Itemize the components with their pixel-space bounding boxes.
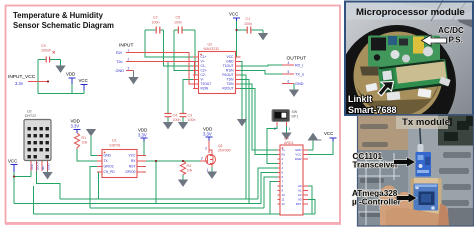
svg-text:C9: C9 xyxy=(41,44,46,48)
svg-text:R2IN: R2IN xyxy=(201,87,209,91)
svg-text:A2: A2 xyxy=(298,193,302,197)
svg-text:T1IN: T1IN xyxy=(226,78,234,82)
svg-text:P.S.: P.S. xyxy=(449,36,463,45)
svg-text:RST: RST xyxy=(129,165,136,169)
svg-text:GND: GND xyxy=(104,154,112,158)
svg-text:3.3v: 3.3v xyxy=(15,81,24,86)
svg-text:C2+: C2+ xyxy=(201,69,207,73)
svg-text:1: 1 xyxy=(289,127,291,131)
svg-text:6: 6 xyxy=(288,80,290,84)
svg-text:T2IN: T2IN xyxy=(226,82,234,86)
svg-text:C1: C1 xyxy=(246,17,251,21)
svg-text:U4: U4 xyxy=(284,137,289,141)
svg-text:VCC: VCC xyxy=(79,78,88,83)
svg-text:VCC: VCC xyxy=(8,159,17,164)
svg-text:2N7000: 2N7000 xyxy=(218,149,231,153)
svg-text:Rx: Rx xyxy=(282,153,286,157)
svg-text:TX_o: TX_o xyxy=(295,73,304,77)
svg-text:10: 10 xyxy=(282,193,286,197)
svg-text:C2-: C2- xyxy=(201,73,206,77)
svg-text:100n: 100n xyxy=(152,21,160,25)
svg-text:12: 12 xyxy=(282,202,286,206)
svg-text:DOUT: DOUT xyxy=(36,161,40,170)
svg-text:Transceiver: Transceiver xyxy=(353,161,399,170)
svg-text:U1: U1 xyxy=(112,139,117,143)
svg-text:100n: 100n xyxy=(173,118,181,122)
svg-text:INPUT: INPUT xyxy=(119,43,133,49)
svg-text:OUTPUT: OUTPUT xyxy=(287,56,307,62)
svg-text:U3: U3 xyxy=(27,110,32,114)
svg-text:GND: GND xyxy=(295,82,304,86)
svg-text:5: 5 xyxy=(288,70,290,74)
svg-text:A3: A3 xyxy=(298,198,302,202)
svg-text:VCC: VCC xyxy=(227,55,235,59)
svg-text:U2: U2 xyxy=(208,43,213,47)
svg-text:R1IN: R1IN xyxy=(226,69,234,73)
svg-text:VDD: VDD xyxy=(66,72,75,77)
svg-text:T2OUT: T2OUT xyxy=(201,82,212,86)
svg-text:VCC: VCC xyxy=(30,163,34,170)
svg-text:R2i: R2i xyxy=(116,51,122,55)
svg-text:Smart-7688: Smart-7688 xyxy=(348,105,397,115)
svg-text:C3: C3 xyxy=(188,114,193,118)
svg-text:3: 3 xyxy=(128,66,130,70)
svg-text:100n: 100n xyxy=(188,118,196,122)
svg-text:VCC: VCC xyxy=(129,154,137,158)
svg-text:RST: RST xyxy=(296,202,302,206)
svg-text:C4: C4 xyxy=(173,114,178,118)
svg-text:GND: GND xyxy=(226,60,234,64)
svg-text:GND: GND xyxy=(116,69,125,73)
svg-text:R1OUT: R1OUT xyxy=(222,73,233,77)
svg-text:T2o: T2o xyxy=(116,60,123,64)
svg-text:CH_PD: CH_PD xyxy=(104,170,116,174)
svg-text:GND: GND xyxy=(295,148,301,152)
svg-text:T1OUT: T1OUT xyxy=(223,64,234,68)
svg-text:3.3V: 3.3V xyxy=(71,124,80,129)
svg-text:2: 2 xyxy=(128,57,130,61)
svg-text:3: 3 xyxy=(205,147,207,151)
svg-text:1: 1 xyxy=(128,48,130,52)
svg-text:ARD1: ARD1 xyxy=(284,141,294,145)
svg-text:11: 11 xyxy=(282,198,285,202)
svg-text:SW: SW xyxy=(292,110,298,114)
svg-text:C1-: C1- xyxy=(201,64,206,68)
svg-text:VCC: VCC xyxy=(229,12,238,17)
svg-text:Tx module: Tx module xyxy=(402,117,450,128)
svg-text:V-: V- xyxy=(201,78,204,82)
svg-text:LinkIt: LinkIt xyxy=(348,94,372,104)
svg-text:C5: C5 xyxy=(176,16,181,20)
svg-text:Tx: Tx xyxy=(282,148,286,152)
svg-text:R1: R1 xyxy=(82,136,87,140)
svg-text:2: 2 xyxy=(201,157,203,161)
svg-text:GPIO2: GPIO2 xyxy=(104,165,114,169)
svg-text:C1+: C1+ xyxy=(201,55,207,59)
svg-text:INPUT_VCC: INPUT_VCC xyxy=(8,74,36,80)
svg-text:RX: RX xyxy=(131,159,136,163)
svg-text:MAX3232: MAX3232 xyxy=(204,47,220,51)
svg-text:VCC: VCC xyxy=(324,131,333,136)
svg-text:DHT22: DHT22 xyxy=(25,114,36,118)
svg-text:µ -Controller: µ -Controller xyxy=(352,198,402,207)
svg-text:V+: V+ xyxy=(201,60,205,64)
svg-text:100n: 100n xyxy=(174,21,182,25)
svg-text:2: 2 xyxy=(274,127,276,131)
svg-text:RAW: RAW xyxy=(295,157,302,161)
svg-text:R2OUT: R2OUT xyxy=(222,87,233,91)
svg-text:A0: A0 xyxy=(298,184,302,188)
svg-text:R4: R4 xyxy=(187,164,192,168)
svg-text:100n: 100n xyxy=(244,22,252,26)
svg-text:4: 4 xyxy=(288,61,290,65)
svg-text:VCC: VCC xyxy=(295,153,301,157)
svg-text:100uF: 100uF xyxy=(41,49,52,53)
svg-text:C2: C2 xyxy=(153,16,158,20)
svg-text:GPIO0: GPIO0 xyxy=(125,170,135,174)
svg-text:1: 1 xyxy=(207,168,209,172)
svg-text:A1: A1 xyxy=(298,189,302,193)
svg-text:RX_i: RX_i xyxy=(295,64,303,68)
svg-text:3.3V: 3.3V xyxy=(203,132,212,137)
svg-text:10k: 10k xyxy=(82,141,88,145)
svg-text:Microprocessor module: Microprocessor module xyxy=(356,7,465,18)
svg-text:GND: GND xyxy=(47,163,51,171)
svg-text:3.3V: 3.3V xyxy=(138,133,147,138)
svg-text:ESP01: ESP01 xyxy=(110,144,121,148)
svg-text:10k: 10k xyxy=(187,169,193,173)
svg-text:DP1: DP1 xyxy=(292,115,299,119)
svg-text:AC/DC: AC/DC xyxy=(438,26,464,35)
svg-text:Q1: Q1 xyxy=(218,144,223,148)
